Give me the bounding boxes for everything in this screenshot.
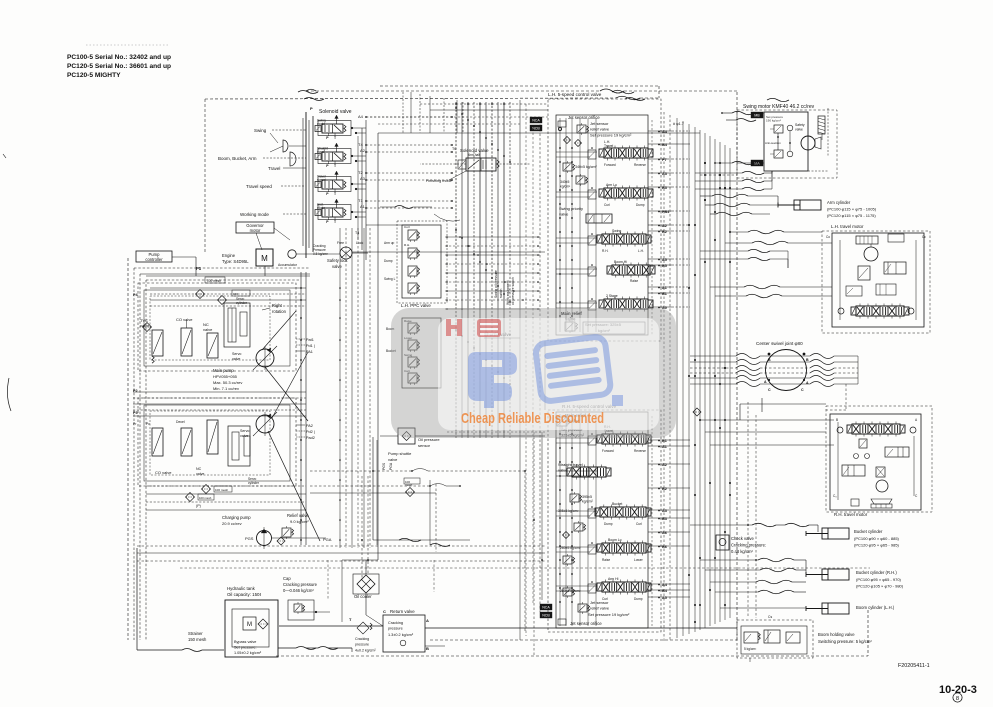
svg-text:C: C [768, 388, 771, 392]
svg-text:280±5 kg/cm²: 280±5 kg/cm² [560, 546, 581, 550]
svg-text:valve: valve [332, 264, 342, 269]
main pump group 1 boundary [138, 283, 296, 371]
left vertical pilot bus wires [134, 268, 310, 640]
swivel joint passing lines [690, 353, 858, 410]
svg-text:1.05±0.2 kg/cm²: 1.05±0.2 kg/cm² [234, 651, 262, 655]
svg-text:valve: valve [232, 357, 240, 361]
svg-text:Hydraulic tank: Hydraulic tank [227, 586, 256, 591]
svg-text:Max. 50.3 cc/rev: Max. 50.3 cc/rev [213, 380, 242, 385]
svg-text:1.3±0.2 kg/cm²: 1.3±0.2 kg/cm² [388, 633, 414, 637]
L.H. PPC valve group upper [384, 221, 447, 308]
svg-text:B1: B1 [662, 292, 667, 296]
svg-text:T6: T6 [452, 147, 456, 151]
svg-text:Pump shuttle: Pump shuttle [388, 451, 412, 456]
svg-text:Reverse: Reverse [634, 449, 646, 453]
svg-text:Oil cooler: Oil cooler [354, 594, 372, 599]
NCA NCB tags RH [540, 604, 552, 618]
arm lo spool valve [599, 183, 653, 207]
svg-text:100 mesh: 100 mesh [199, 496, 212, 500]
solenoid bank port labels [355, 114, 366, 235]
svg-text:Curl: Curl [636, 522, 642, 526]
svg-text:B: B [426, 646, 429, 651]
svg-text:Work equipment: Work equipment [506, 280, 510, 305]
svg-text:Jet sensor orifice: Jet sensor orifice [570, 621, 602, 626]
svg-text:A: A [426, 618, 429, 623]
svg-text:B3: B3 [662, 186, 667, 190]
safety lock valve [296, 241, 368, 269]
RH column inner risers [559, 414, 596, 626]
svg-text:valve: valve [559, 212, 569, 217]
bucket cylinder RH [806, 569, 904, 589]
svg-text:Arm up: Arm up [384, 241, 395, 245]
column connector wires between LH RH [520, 100, 545, 640]
svg-text:mode: mode [317, 206, 325, 210]
pump circuit ladder wires group1 [150, 228, 370, 548]
pressure switch rotated labels [382, 270, 515, 470]
bus junction dots [688, 162, 731, 623]
jet sensor relief valve LH [564, 121, 633, 147]
shuttle valve label [484, 332, 520, 338]
svg-text:NCA: NCA [542, 606, 550, 610]
LH travel motor hoses [710, 230, 832, 298]
svg-text:340±5 kg/cm²: 340±5 kg/cm² [575, 165, 598, 169]
RH travel spool valve [597, 425, 651, 453]
svg-text:Decel: Decel [176, 420, 185, 424]
straight travel valve [558, 462, 611, 480]
svg-text:Straight travel: Straight travel [558, 462, 583, 467]
svg-text:B: B [836, 418, 838, 422]
bucket RH hoses [700, 558, 806, 594]
svg-text:Safety: Safety [795, 123, 805, 127]
solenoid bank right port dots and wires [351, 120, 366, 260]
port to bus connector wires RH [648, 440, 690, 597]
svg-text:190 kg/cm²: 190 kg/cm² [766, 119, 781, 123]
svg-text:Travel: Travel [268, 166, 280, 171]
pump controller box [136, 251, 172, 262]
svg-text:Bypass valve: Bypass valve [234, 640, 256, 644]
watermark blue glyph stripes [535, 336, 612, 402]
svg-text:Swing priority: Swing priority [559, 206, 583, 211]
svg-text:Pc: Pc [146, 422, 150, 426]
svg-text:Set pressure 19 kg/cm²: Set pressure 19 kg/cm² [590, 133, 632, 138]
LH port labels [658, 130, 670, 310]
watermark red letter block [477, 319, 501, 337]
svg-text:PC120-5 Serial No.: 36601 and: PC120-5 Serial No.: 36601 and up [67, 63, 171, 70]
svg-text:Jet sensor: Jet sensor [590, 121, 609, 126]
svg-text:150 mesh: 150 mesh [188, 637, 207, 642]
svg-text:Lock: Lock [356, 241, 363, 245]
accumulator [278, 250, 298, 267]
svg-text:0.48 kg/cm²: 0.48 kg/cm² [731, 549, 753, 554]
svg-text:Curl: Curl [604, 203, 610, 207]
solenoid valve S4 [315, 199, 351, 224]
svg-text:travel: travel [317, 150, 325, 154]
page number [939, 684, 977, 702]
svg-text:Forward: Forward [602, 449, 614, 453]
svg-text:PGS: PGS [245, 536, 254, 541]
svg-text:A1: A1 [662, 445, 667, 449]
svg-text:Strainer: Strainer [188, 631, 203, 636]
svg-text:Cracking: Cracking [388, 621, 403, 625]
svg-text:(P): (P) [196, 504, 201, 508]
svg-text:A1: A1 [662, 286, 667, 290]
oil cooler [353, 560, 383, 626]
svg-text:Safety lock: Safety lock [327, 258, 348, 263]
svg-text:Boom cylinder (L.H.): Boom cylinder (L.H.) [856, 605, 895, 610]
svg-text:8: 8 [956, 696, 959, 702]
svg-text:A: A [764, 380, 767, 384]
R.H. 5-speed control valve boundary [548, 404, 661, 632]
svg-text:P7: P7 [662, 158, 667, 162]
right rotation note [262, 303, 287, 314]
svg-text:Working mode: Working mode [240, 212, 269, 217]
bucket cylinder [690, 523, 900, 547]
svg-text:Cc: Cc [922, 235, 926, 239]
charge relief valve [272, 513, 332, 545]
svg-text:Cracking pressure: Cracking pressure [283, 582, 318, 587]
svg-text:Jet sensor orifice: Jet sensor orifice [568, 115, 600, 120]
svg-text:MB: MB [754, 114, 760, 118]
svg-text:NC: NC [196, 467, 202, 471]
boom holding valve assembly [737, 615, 872, 662]
svg-text:Cracking pressure:: Cracking pressure: [731, 543, 766, 548]
svg-text:Co: Co [826, 235, 830, 239]
main pump 1 circle [232, 346, 277, 370]
svg-text:Swing oil pressure: Swing oil pressure [494, 270, 498, 298]
svg-text:B5: B5 [662, 264, 667, 268]
svg-text:Travel: Travel [604, 144, 614, 148]
svg-text:pressure: pressure [355, 643, 369, 647]
solenoid valve S3 [315, 171, 351, 196]
outer dashed boundary box [128, 86, 868, 656]
boom cylinder LH [720, 603, 895, 614]
svg-text:Check valve: Check valve [731, 536, 754, 541]
jet sensor orifice LH [558, 115, 600, 131]
svg-text:Pd2 |: Pd2 | [306, 430, 315, 434]
svg-text:PC100-5 Serial No.: 32402 and: PC100-5 Serial No.: 32402 and up [67, 54, 171, 61]
arm cylinder [778, 200, 877, 218]
RH spool pilot boxes [588, 433, 596, 593]
svg-text:T2: T2 [358, 170, 363, 175]
suction filters 100 mesh [186, 478, 421, 508]
svg-text:A4: A4 [358, 114, 364, 119]
svg-text:Cap: Cap [283, 576, 291, 581]
two stage spool valve [599, 294, 653, 312]
svg-text:Relief valve: Relief valve [287, 513, 309, 518]
RH column right dashed riser [651, 416, 653, 626]
svg-text:Dump: Dump [634, 597, 643, 601]
svg-text:R.H. travel motor: R.H. travel motor [834, 512, 868, 517]
svg-text:(PC120 φ105 × φ70 - 980): (PC120 φ105 × φ70 - 980) [856, 584, 904, 589]
svg-text:0—0.046 kg/cm²: 0—0.046 kg/cm² [283, 588, 314, 593]
svg-text:CO valve: CO valve [155, 470, 172, 475]
svg-text:L.H. travel motor: L.H. travel motor [831, 224, 864, 229]
center swivel joint [756, 341, 807, 391]
wire P1 to pump [146, 257, 310, 276]
LH spool pilot boxes [588, 147, 596, 310]
governor motor box [236, 222, 290, 250]
svg-text:Solenoid valve: Solenoid valve [319, 109, 352, 115]
TVC valve [140, 318, 163, 363]
svg-text:NCB: NCB [542, 614, 550, 618]
svg-text:A2: A2 [360, 148, 366, 153]
solenoid bank output wires [352, 116, 545, 252]
svg-text:Engine: Engine [222, 253, 236, 258]
svg-text:Swing motor KMF40 46.2 cc/rev: Swing motor KMF40 46.2 cc/rev [743, 104, 815, 110]
engine symbol M [222, 249, 273, 266]
main pump spec text [213, 368, 242, 391]
jet sensor relief valve RH [578, 600, 630, 617]
svg-text:Bucket cylinder (R.H.): Bucket cylinder (R.H.) [856, 570, 897, 575]
svg-text:Type: S4D95L: Type: S4D95L [222, 259, 249, 264]
servo valve 2 [228, 426, 260, 485]
CO valve 1 [176, 317, 193, 356]
watermark red letter H [446, 319, 462, 336]
center boundary box [342, 133, 700, 560]
svg-text:controller: controller [145, 257, 163, 262]
svg-text:Arm Hi: Arm Hi [608, 577, 619, 581]
boom lo spool valve [560, 538, 651, 566]
watermark inner white [438, 318, 659, 430]
watermark blue small square [612, 395, 623, 406]
svg-text:R.H.: R.H. [404, 243, 410, 247]
svg-text:B3: B3 [662, 517, 667, 521]
svg-text:PGS: PGS [382, 462, 386, 470]
svg-text:B2: B2 [662, 487, 667, 491]
svg-text:P3: P3 [133, 411, 138, 415]
svg-text:Main pump: Main pump [213, 368, 234, 373]
LH spool row tie wires [556, 152, 597, 308]
CO valve 2 [133, 420, 192, 475]
svg-text:PA2: PA2 [306, 424, 313, 428]
svg-text:Pad2: Pad2 [306, 436, 315, 440]
svg-text:relief valve: relief valve [590, 606, 610, 611]
swing spool valve [597, 229, 651, 253]
svg-text:switch: switch [499, 288, 503, 298]
svg-text:(PC100 φ115 × φ75 - 1005): (PC100 φ115 × φ75 - 1005) [827, 207, 877, 212]
RH travel motor hoses [700, 398, 834, 445]
svg-text:A6: A6 [662, 531, 667, 535]
svg-text:L.H. PPC valve: L.H. PPC valve [401, 303, 431, 308]
svg-text:Dump: Dump [636, 203, 645, 207]
svg-text:Arm cylinder: Arm cylinder [827, 200, 851, 205]
svg-text:Return valve: Return valve [390, 609, 415, 614]
svg-text:NCA: NCA [532, 119, 540, 123]
svg-text:4±0.2 kg/cm²: 4±0.2 kg/cm² [355, 649, 377, 653]
riser top tie wires [366, 103, 548, 124]
servo cylinder 1 [224, 297, 250, 347]
svg-text:A1: A1 [360, 204, 366, 209]
RH relief mid [563, 521, 586, 539]
svg-text:P1: P1 [196, 266, 202, 271]
NC valve 2 [196, 420, 218, 476]
svg-text:Accumulator: Accumulator [278, 263, 298, 267]
tank cap breather [283, 576, 330, 620]
svg-text:Cheap Reliable Discounted: Cheap Reliable Discounted [461, 410, 604, 427]
L.H. PPC valve group lower [386, 318, 441, 388]
swing motor return hoses [695, 171, 772, 191]
svg-text:T4: T4 [358, 142, 363, 147]
svg-text:C: C [383, 609, 386, 614]
boom hi spool valve [607, 260, 655, 283]
100 mesh filter top [196, 277, 251, 305]
svg-text:CO valve: CO valve [176, 317, 193, 322]
L.H. travel motor assembly [822, 224, 930, 333]
arm hi spool valve [560, 577, 651, 601]
pump2 outlet port labels [133, 389, 315, 440]
R.H. travel motor assembly [693, 406, 932, 517]
svg-text:Anti-reaction: Anti-reaction [765, 141, 781, 145]
svg-text:Cs: Cs [768, 615, 772, 619]
svg-text:Travel speed: Travel speed [246, 184, 272, 189]
svg-text:Dump: Dump [384, 259, 393, 263]
LH travel relief 340 [560, 161, 598, 189]
svg-text:valve: valve [795, 128, 803, 132]
svg-text:F20205411-1: F20205411-1 [898, 663, 930, 669]
hydraulic tank [225, 586, 278, 657]
NCA NCB tags LH [530, 117, 542, 131]
svg-text:Boom Lo: Boom Lo [608, 538, 622, 542]
jet sensor orifice RH [558, 619, 602, 626]
svg-text:Curl: Curl [404, 225, 410, 229]
svg-text:valve: valve [240, 434, 248, 438]
LH column right dashed riser [651, 120, 653, 335]
svg-text:Swing: Swing [254, 128, 267, 133]
check valve [716, 535, 766, 554]
svg-text:(PC100 φ90 × φ60 - 885): (PC100 φ90 × φ60 - 885) [854, 536, 900, 541]
control lever input labels [218, 128, 306, 217]
svg-text:Bucket: Bucket [612, 502, 622, 506]
svg-text:Cracking: Cracking [355, 637, 369, 641]
return line wires tank to valve [278, 626, 383, 652]
RH relief 395 [558, 492, 594, 513]
NC valve 1 [203, 322, 218, 358]
swing motor assembly [737, 104, 837, 178]
svg-text:L.H.: L.H. [638, 249, 644, 253]
swing motor feed hoses [700, 98, 789, 175]
bucket spool valve [595, 502, 651, 526]
pump shuttle riser wires [310, 432, 543, 656]
svg-text:A3: A3 [360, 176, 366, 181]
svg-text:pressure: pressure [388, 627, 403, 631]
center low horizontal wires [137, 206, 545, 623]
main pump 2 circle [256, 415, 274, 433]
svg-text:B: B [768, 358, 771, 362]
svg-text:HPV055+055: HPV055+055 [213, 374, 238, 379]
svg-text:Servo: Servo [232, 352, 241, 356]
svg-text:motor: motor [250, 228, 261, 233]
svg-text:T1: T1 [358, 198, 363, 203]
svg-text:Min. 7.1 cc/rev: Min. 7.1 cc/rev [213, 386, 239, 391]
svg-text:C: C [801, 388, 804, 392]
svg-text:Swing: Swing [612, 229, 621, 233]
svg-text:B2: B2 [662, 230, 667, 234]
port to bus connector wires LH [648, 131, 690, 307]
svg-text:5 kg/cm²: 5 kg/cm² [744, 647, 756, 651]
svg-text:395±5: 395±5 [582, 495, 592, 499]
svg-text:B: B [806, 358, 809, 362]
right main vertical bus wires [664, 112, 730, 642]
svg-text:PC120-5 MIGHTY: PC120-5 MIGHTY [67, 72, 121, 79]
strainer label [137, 548, 224, 652]
svg-text:PGA: PGA [389, 462, 393, 470]
svg-text:relief valve: relief valve [590, 127, 610, 132]
svg-text:valve: valve [388, 457, 398, 462]
return valve block [349, 609, 737, 653]
main pump group 2 boundary [138, 398, 296, 486]
svg-text:Oil capacity: 150ℓ: Oil capacity: 150ℓ [227, 592, 261, 597]
main relief valve LH [561, 311, 645, 334]
svg-text:A5: A5 [662, 258, 667, 262]
svg-text:10-20-3: 10-20-3 [939, 684, 977, 696]
svg-text:P2: P2 [133, 389, 138, 393]
svg-text:B1: B1 [662, 439, 667, 443]
svg-text:9.0 kg/cm²: 9.0 kg/cm² [290, 519, 309, 524]
svg-text:(PC120 φ115 × φ75 - 1175): (PC120 φ115 × φ75 - 1175) [827, 213, 876, 218]
watermark blue glyph claw [468, 352, 517, 408]
svg-text:Bucket cylinder: Bucket cylinder [854, 529, 883, 534]
svg-text:A: A [806, 381, 809, 385]
watermark gray band [391, 308, 676, 438]
main relief valve RH [557, 413, 586, 438]
svg-text:T4: T4 [355, 231, 359, 235]
faint dotted artifact above header [86, 44, 170, 46]
svg-text:340±5: 340±5 [560, 180, 570, 184]
svg-text:20.9 cc/rev: 20.9 cc/rev [222, 521, 242, 526]
pump circuit ladder wires group2 [133, 392, 306, 510]
charging pump [222, 515, 272, 549]
svg-text:cylinder: cylinder [236, 301, 248, 305]
svg-text:A5: A5 [662, 596, 667, 600]
svg-text:Switching pressure: 5 kg/cm²: Switching pressure: 5 kg/cm² [818, 639, 872, 644]
svg-text:Right: Right [272, 303, 283, 308]
L.H. 5-speed control valve boundary [548, 90, 661, 341]
svg-text:P: P [310, 106, 313, 111]
low pilot dashed wires [180, 560, 870, 600]
svg-text:100 mesh: 100 mesh [215, 488, 229, 492]
solenoid manifold vertical lines [303, 106, 313, 258]
header model text [67, 54, 171, 79]
svg-text:kg/cm²: kg/cm² [560, 185, 571, 189]
svg-text:Set pressure:: Set pressure: [234, 646, 257, 650]
svg-text:Pd1 |: Pd1 | [306, 344, 315, 348]
svg-text:L.H. 5-speed control valve: L.H. 5-speed control valve [548, 92, 602, 97]
svg-text:M: M [261, 254, 268, 263]
svg-text:Center swivel joint φ80: Center swivel joint φ80 [756, 341, 803, 346]
svg-text:Raise: Raise [602, 558, 610, 562]
svg-text:Charging pump: Charging pump [222, 515, 251, 520]
solenoid valve 2 (finishing mode) [420, 147, 530, 183]
svg-text:Forward: Forward [604, 163, 616, 167]
svg-text:Finishing mode: Finishing mode [426, 179, 452, 183]
solenoid valve S2 [315, 143, 351, 168]
LH travel spool valve [599, 140, 653, 167]
LH column inner risers [559, 118, 596, 332]
svg-text:Raise: Raise [630, 279, 638, 283]
svg-text:A2: A2 [662, 463, 667, 467]
svg-text:A2: A2 [662, 224, 667, 228]
svg-text:(PC120 φ95 × φ65 - 985): (PC120 φ95 × φ65 - 985) [854, 543, 900, 548]
svg-text:valve: valve [196, 472, 204, 476]
svg-text:A3: A3 [662, 172, 667, 176]
svg-text:Free: Free [337, 241, 344, 245]
svg-text:R.H.: R.H. [602, 249, 608, 253]
swivel upper hoses 2 [700, 249, 788, 268]
svg-text:Swing L: Swing L [384, 277, 396, 281]
svg-text:sensor: sensor [418, 443, 431, 448]
scan artifact curve left edge [7, 378, 11, 411]
svg-text:Boom, Bucket, Arm: Boom, Bucket, Arm [218, 156, 257, 161]
